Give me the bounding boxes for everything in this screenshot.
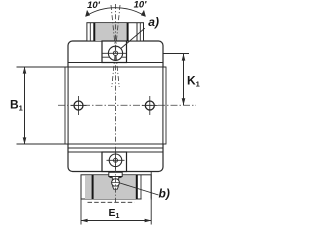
bolt hole right [142,96,158,115]
leader b [120,183,159,195]
left bulge [65,67,68,144]
tilted axis line right [112,5,120,87]
svg-text:a): a) [148,15,159,29]
B1 dimension line [24,67,26,144]
tolerance arc [86,8,146,17]
B1 extension top (bulge top edge) [17,66,167,68]
K1 dimension line [183,54,185,105]
bottom nipple boss [102,152,127,172]
svg-text:10': 10' [134,0,148,11]
vertical centerline [115,4,117,202]
internal line bottom 1 [68,147,163,149]
E1 arrow right [145,219,152,223]
E1 dimension line [81,220,151,222]
E1 extension right [150,172,152,225]
internal line top [68,62,163,64]
grease fitting b [109,172,122,189]
svg-text:b): b) [159,187,170,201]
grease nipple bottom [107,152,125,170]
K1 arrow down [182,98,186,105]
main housing block outline [68,41,163,172]
B1 arrow down [23,137,27,144]
bottom base hidden edge [88,201,135,203]
E1 arrow left [81,219,88,223]
bolt hole left [71,96,87,115]
internal line bottom 2 [68,151,163,153]
grease nipple top [102,46,127,60]
right bulge [163,67,166,144]
horizontal centerline [58,104,196,106]
K1 arrow up [182,54,186,61]
B1 extension bottom (bulge bottom edge) [17,143,167,145]
top nipple boss [102,41,127,63]
base bottom edge gap [142,198,151,200]
arc arrowhead left [85,10,90,17]
arc arrowhead right [141,10,146,17]
K1 extension [163,53,189,55]
top cap [87,23,144,41]
leader a [121,28,145,48]
tilted axis line left [111,5,119,87]
B1 arrow up [23,67,27,74]
bottom base plate [81,175,151,199]
svg-text:10': 10' [87,0,101,11]
E1 extension left [80,199,82,225]
